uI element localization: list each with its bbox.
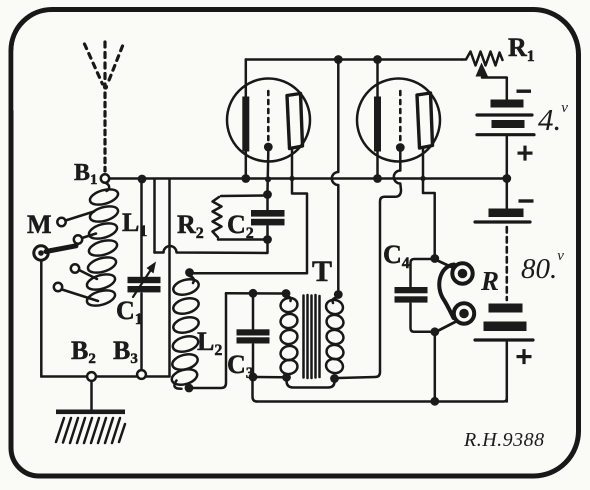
switch contact 3 xyxy=(71,264,79,272)
svg-text:C3: C3 xyxy=(227,350,254,382)
potentiometer R1 xyxy=(462,52,507,100)
svg-text:4.v: 4.v xyxy=(538,100,568,137)
wire: top bus xyxy=(246,58,462,61)
core xyxy=(302,296,305,378)
headphones R xyxy=(439,261,475,331)
wire: vertical x170 (line A down to B3 line) xyxy=(168,179,171,376)
tap wire 2 xyxy=(82,234,96,239)
junction C4 top node xyxy=(430,254,439,263)
junction bus x338 xyxy=(334,55,343,64)
resistor R2 xyxy=(213,196,268,240)
transformer T xyxy=(279,295,345,378)
wire: vertical x338 bus to transformer secondary (hop over line A) xyxy=(332,60,339,292)
svg-text:R2: R2 xyxy=(177,210,204,242)
junction secondary bottom xyxy=(330,374,339,383)
wire: pivot down to B2 line xyxy=(40,260,43,376)
terminal B1 xyxy=(101,174,109,182)
crossing blob V1 grid over line A xyxy=(265,176,271,182)
svg-text:L2: L2 xyxy=(197,327,222,359)
tap wire 4 xyxy=(62,290,98,302)
switch contact 4 xyxy=(54,283,62,291)
wire: C3 bottom down to return line xyxy=(253,381,258,402)
wire: V1 plate staircase to L2 top xyxy=(192,149,307,274)
wire: V2 filament bottom to line A xyxy=(376,152,379,176)
ground xyxy=(56,410,125,444)
secondary winding xyxy=(333,298,338,304)
svg-text:R.H.9388: R.H.9388 xyxy=(463,429,545,451)
junction L2 bottom xyxy=(185,384,194,393)
junction battery on line A xyxy=(502,174,511,183)
wire: return line y401 xyxy=(257,398,507,402)
junction V1 filament on line A xyxy=(241,174,250,183)
wire: C3 bottom to primary bottom xyxy=(257,376,283,379)
wire: grid-return vertical x154 xyxy=(153,179,156,253)
svg-text:T: T xyxy=(312,255,332,288)
wire: V2 filament top to bus xyxy=(376,60,379,97)
junction L2 top xyxy=(185,268,194,277)
wire: V1 filament top to bus xyxy=(245,60,248,97)
junction return line x435 xyxy=(430,397,439,406)
junction grid node top xyxy=(263,190,272,199)
antenna xyxy=(85,42,123,171)
primary winding xyxy=(286,296,291,301)
switch contact 1 xyxy=(57,218,65,226)
wire: U link between winding bottoms xyxy=(287,381,335,388)
tap wire 1 xyxy=(66,212,95,221)
junction primary bottom xyxy=(282,373,291,382)
wire: node down to return line xyxy=(434,336,437,397)
coil L1 xyxy=(85,183,120,309)
svg-text:B1: B1 xyxy=(74,160,98,188)
variable capacitor C1 xyxy=(128,183,161,370)
coil L2 xyxy=(170,276,200,389)
junction grid node bottom xyxy=(263,235,272,244)
wire: grid line y253 with hop over x170 xyxy=(155,243,268,253)
capacitor C4 xyxy=(395,259,431,332)
junction C4 bottom node xyxy=(430,327,439,336)
svg-text:R1: R1 xyxy=(508,33,535,65)
svg-text:C1: C1 xyxy=(116,296,143,328)
junction secondary top xyxy=(334,290,343,299)
tap wire 3 xyxy=(79,270,97,279)
wire: B2 down to ground xyxy=(90,381,93,410)
battery 4V xyxy=(477,90,534,175)
terminal B2 xyxy=(87,372,96,381)
switch M : pivot xyxy=(34,241,80,261)
switch contact 2 xyxy=(74,235,82,243)
wire: L2 bottom to C3 box top xyxy=(193,293,226,388)
terminal B3 xyxy=(137,370,146,379)
wire: B2-B3 bottom line xyxy=(41,375,169,378)
crossing blob V2 plate wire over line A xyxy=(420,176,425,181)
svg-text:C2: C2 xyxy=(227,210,254,242)
junction V2 filament on line A xyxy=(373,174,382,183)
wire: main filament line A (B1 to battery) xyxy=(109,177,505,180)
wire: V2 plate staircase down to C4 node xyxy=(423,148,435,255)
svg-text:B3: B3 xyxy=(113,336,138,367)
svg-text:M: M xyxy=(27,210,52,239)
battery 80V xyxy=(475,183,534,402)
svg-text:R: R xyxy=(480,266,499,296)
svg-text:C4: C4 xyxy=(383,240,410,272)
wire: V1 grid stem xyxy=(266,152,269,192)
capacitor C2 xyxy=(251,198,285,236)
tube V1 xyxy=(227,79,310,162)
junction C3 top xyxy=(249,289,258,298)
junction primary top xyxy=(282,289,291,298)
wire: V1 filament bottom to line A xyxy=(245,152,248,176)
junction bus x377 xyxy=(373,55,382,64)
junction C3 bottom xyxy=(249,373,258,382)
crossing blob V1 plate wire over line A xyxy=(289,176,294,181)
capacitor C3 xyxy=(237,296,270,374)
svg-text:80.v: 80.v xyxy=(521,248,564,285)
wire: V2 grid stem with hop over line A, staircase down to secondary bottom xyxy=(339,152,402,378)
wire: C3 top line to transformer primary xyxy=(226,292,283,295)
svg-text:L1: L1 xyxy=(122,208,147,240)
junction on line A at x=142 xyxy=(138,175,147,184)
svg-text:B2: B2 xyxy=(71,336,96,367)
tube V2 xyxy=(357,79,440,162)
